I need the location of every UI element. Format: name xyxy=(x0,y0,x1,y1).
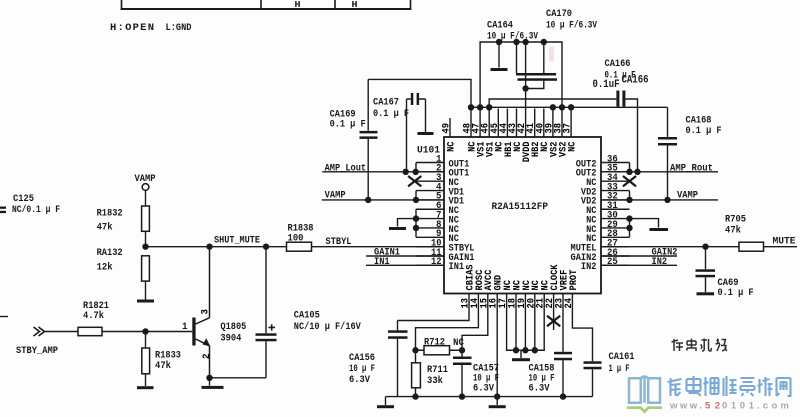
pin 37 name NC xyxy=(567,141,579,152)
label Q1805 type 3904 xyxy=(220,332,241,344)
label CA105 value xyxy=(294,321,362,333)
node bus junction x=489.2 xyxy=(486,104,492,110)
resistor R705 body xyxy=(739,242,764,251)
pin 20 name NC xyxy=(530,280,542,291)
wire pin33 to pin32 tie xyxy=(629,191,631,200)
resistor R711 body xyxy=(412,350,421,396)
svg-text:Q1805: Q1805 xyxy=(220,321,246,333)
label STBY_AMP xyxy=(16,345,58,357)
svg-text:H: H xyxy=(352,0,358,10)
pin 9 name NC xyxy=(449,233,460,245)
label NC (R712) xyxy=(453,337,465,349)
pin 23 name VREF xyxy=(558,270,570,291)
transistor Q1805 collector xyxy=(196,247,210,324)
pin 28 number xyxy=(607,229,618,240)
svg-text:CA170: CA170 xyxy=(546,8,572,20)
pin 42 (DVDD) stub xyxy=(525,89,527,138)
label VAMP terminal xyxy=(135,173,156,185)
wire net VAMP (left) xyxy=(322,199,444,201)
label R1832 value 47k xyxy=(97,222,113,234)
label CA164 value xyxy=(487,31,539,43)
pin 26 (GAIN2) stub xyxy=(601,255,630,257)
pink jpeg artifact xyxy=(549,47,554,61)
wire net IN2 from pin25 xyxy=(601,264,677,266)
pin 20 (NC) number xyxy=(526,298,537,309)
label R1821 xyxy=(83,300,109,312)
wire pin15 to CA157 xyxy=(462,294,488,351)
svg-text:R1832: R1832 xyxy=(97,208,123,220)
svg-text:47k: 47k xyxy=(97,222,113,234)
label net AMP_Lout xyxy=(325,162,367,174)
label CA158 value 10uF xyxy=(529,373,555,385)
label CA166 xyxy=(605,58,631,70)
pin 28 (NC) stub xyxy=(601,236,630,238)
wire net GAIN1 to pin11 xyxy=(366,255,444,257)
pin 29 name NC xyxy=(586,224,597,236)
pin 43 (NC) stub xyxy=(516,109,518,138)
svg-text:6.3V: 6.3V xyxy=(349,374,371,386)
pin 11 (GAIN1) stub xyxy=(416,255,444,257)
svg-text:CA161: CA161 xyxy=(609,351,635,363)
label CA166 duplicate xyxy=(622,75,649,87)
transistor Q1805 base bar xyxy=(192,318,195,346)
node R711 / rail junction xyxy=(412,393,418,399)
wire emitter to ground xyxy=(209,378,211,386)
svg-text:VAMP: VAMP xyxy=(135,173,156,185)
wire net SHUT_MUTE xyxy=(146,246,287,248)
svg-text:12k: 12k xyxy=(97,262,113,274)
svg-text:STBY_AMP: STBY_AMP xyxy=(16,345,58,357)
svg-text:10 μ F/6.3V: 10 μ F/6.3V xyxy=(546,20,598,32)
capacitor CA170 top stubs xyxy=(517,42,544,73)
pin 27 number xyxy=(607,239,618,250)
svg-text:STBYL: STBYL xyxy=(326,236,352,248)
ground bar (R1833) xyxy=(137,386,154,389)
node base junction xyxy=(142,328,148,334)
pin 25 (IN2) stub xyxy=(601,264,630,266)
capacitor CA156 bottom lead xyxy=(397,339,399,397)
node R712/R711 junction xyxy=(412,347,418,353)
watermark url www.520101.com xyxy=(669,401,789,412)
label R1821 value 4.7k xyxy=(83,310,104,322)
table cell text H (2) xyxy=(352,0,358,10)
wire bus to CA168 xyxy=(667,107,669,137)
label CA170 xyxy=(546,8,572,20)
pin 21 (NC) number xyxy=(536,298,547,309)
pin 18 name NC xyxy=(511,280,523,291)
pin 24 name PROT xyxy=(568,270,580,291)
label net MUTE xyxy=(773,236,796,248)
node bus junction x=552.9 xyxy=(550,104,556,110)
node bus junction x=480.1 xyxy=(477,104,483,110)
svg-text:12: 12 xyxy=(431,257,442,268)
svg-text:1 μ F: 1 μ F xyxy=(609,363,630,375)
label net VAMP (left) xyxy=(325,190,346,202)
pin 32 (VD2) stub xyxy=(601,199,630,201)
pin 45 number xyxy=(490,123,501,134)
pin 5 (VD1) stub xyxy=(416,199,444,201)
svg-text:25: 25 xyxy=(607,257,618,268)
wire top rail xyxy=(480,42,562,107)
svg-text:3: 3 xyxy=(200,309,211,315)
svg-text:CA105: CA105 xyxy=(294,309,320,321)
svg-text:PROT: PROT xyxy=(568,270,580,291)
wire RA132 to ground xyxy=(145,281,147,299)
node bus junction x=562 xyxy=(559,104,565,110)
watermark chinese site name xyxy=(668,376,791,396)
pin 26 name GAIN2 xyxy=(571,252,597,264)
label CA168 xyxy=(686,115,712,127)
capacitor CA166 plates xyxy=(616,91,625,107)
pin 11 name GAIN1 xyxy=(449,252,475,264)
capacitor CA161 bottom lead xyxy=(592,369,594,396)
node CA158 / rail junction xyxy=(560,393,566,399)
wire CA169/CA167 top line xyxy=(368,79,471,107)
pin 2 (OUT1) stub xyxy=(416,171,444,173)
wire pins6-9 to ground xyxy=(398,219,417,227)
wire STBY_AMP input xyxy=(45,331,79,333)
label CA105 xyxy=(294,309,320,321)
wire DVDD mid node xyxy=(525,42,527,89)
label net VAMP (right) xyxy=(677,190,698,202)
ground bar (RA132) xyxy=(137,300,154,303)
svg-text:AMP_Lout: AMP_Lout xyxy=(325,162,367,174)
svg-text:0.1 μ F: 0.1 μ F xyxy=(330,119,366,131)
label RA132 xyxy=(97,247,123,259)
svg-text:0.1 μ F: 0.1 μ F xyxy=(373,108,409,120)
wire net AMP_Lout xyxy=(322,171,444,173)
ground bar (CA167) xyxy=(418,132,434,135)
pin 11 number xyxy=(431,248,442,259)
pin 8 name NC xyxy=(449,224,460,236)
svg-text:VAMP: VAMP xyxy=(677,190,698,202)
wire CA166 to AMP_Rout xyxy=(625,99,637,172)
wire R705 to MUTE xyxy=(764,246,798,248)
label net IN2 xyxy=(652,256,668,268)
capacitor CA157 plates xyxy=(453,357,472,366)
pin 1 number xyxy=(436,154,442,165)
svg-text:CA166: CA166 xyxy=(622,75,649,87)
terminal VAMP circle xyxy=(142,184,149,191)
pin 7 (NC) stub xyxy=(416,218,444,220)
pin 10 name STBYL xyxy=(449,243,475,255)
ground bar (rail left end) xyxy=(377,397,394,409)
pin 44 (HB1) stub xyxy=(506,109,508,138)
pin 39 name VS2 xyxy=(548,142,560,158)
pin 41 name HB2 xyxy=(530,142,542,158)
node bus junction x=571.1 xyxy=(568,104,574,110)
svg-text:IN1: IN1 xyxy=(374,256,390,268)
svg-text:H: H xyxy=(295,0,301,10)
wire R1833 to ground xyxy=(145,374,147,386)
pin 34 name NC xyxy=(586,177,597,189)
label R1833 value 47k xyxy=(155,360,171,372)
wire mid node to CA170 bottom plate xyxy=(526,81,544,89)
label CA157 value 10uF xyxy=(473,373,499,385)
pin 35 name OUT2 xyxy=(576,168,597,180)
pin 8 (NC) stub xyxy=(416,227,444,229)
node pin18 tie junction xyxy=(513,347,519,353)
ground bar (Q1805) xyxy=(202,386,224,389)
svg-text:24: 24 xyxy=(564,298,575,309)
svg-text:NC/0.1 μ F: NC/0.1 μ F xyxy=(12,204,60,216)
pin 39 (VS2) stub xyxy=(552,107,554,137)
capacitor CA158 plates xyxy=(554,352,572,361)
wire pins 30-28 tie xyxy=(629,219,631,238)
svg-text:IN2: IN2 xyxy=(652,256,668,268)
pin 35 (OUT2) stub xyxy=(601,171,630,173)
label CA170 value xyxy=(546,20,598,32)
transistor Q1805 emitter with arrow xyxy=(196,338,211,378)
pin 9 number xyxy=(436,229,442,240)
node rail junction x=543.8 xyxy=(541,39,547,45)
svg-text:IN2: IN2 xyxy=(581,261,597,273)
pin 29 number xyxy=(607,220,618,231)
pin 31 name NC xyxy=(586,205,597,217)
wire pin1 to pin2 tie xyxy=(415,163,417,172)
label RA132 value 12k xyxy=(97,262,113,274)
label CA161 value 1uF xyxy=(609,363,630,375)
svg-text:6.3V: 6.3V xyxy=(473,383,495,395)
capacitor CA156 plates xyxy=(388,330,408,339)
pin 14 name ROSC xyxy=(474,269,486,290)
node MUTEL / CA69 junction xyxy=(702,243,708,249)
label CA156 voltage 6.3V xyxy=(349,374,371,386)
capacitor CA69 plates xyxy=(696,269,716,277)
pin 25 name IN2 xyxy=(581,261,597,273)
wire net AMP_Rout xyxy=(601,171,718,173)
pin 15 name AVCC xyxy=(483,269,495,290)
label CA157 voltage 6.3V xyxy=(473,383,495,395)
pin 30 number xyxy=(607,210,618,221)
label net GAIN2 xyxy=(652,247,678,259)
pin 27 (MUTEL) stub xyxy=(601,246,630,248)
pin 41 (HB2) stub xyxy=(534,109,536,138)
svg-text:AMP_Rout: AMP_Rout xyxy=(670,162,713,174)
label net STBYL xyxy=(326,236,352,248)
svg-text:0.1uF: 0.1uF xyxy=(593,79,620,91)
node rail junction x=499 xyxy=(496,39,502,45)
input arrow STBY_AMP xyxy=(34,327,45,336)
node rail junction x=525.6 xyxy=(522,39,528,45)
pin 6 (NC) stub xyxy=(416,208,444,210)
caption glyph 2 xyxy=(687,339,696,352)
label Q1805 xyxy=(220,321,246,333)
pin 46 number xyxy=(481,123,492,134)
pin 2 name OUT1 xyxy=(449,168,470,180)
label CA168 value xyxy=(686,125,722,137)
pin 33 name VD2 xyxy=(581,186,597,198)
pin 38 (VS2) stub xyxy=(561,107,563,137)
capacitor CA69 leads xyxy=(705,247,707,293)
svg-text:1: 1 xyxy=(182,322,188,333)
wire net GAIN2 from pin26 xyxy=(601,255,677,257)
capacitor C125 plates (cut at edge) xyxy=(0,207,6,214)
label R712 xyxy=(424,337,445,349)
svg-text:H:OPEN: H:OPEN xyxy=(110,22,154,34)
label net SHUT_MUTE xyxy=(214,234,260,246)
pin 46 name VS1 xyxy=(485,142,497,158)
pin 38 number xyxy=(554,123,565,134)
pin 41 number xyxy=(526,123,537,134)
pin 49 number xyxy=(442,123,453,134)
stray dash at left edge xyxy=(0,316,8,318)
pin 5 name VD1 xyxy=(449,196,465,208)
wire R1821 to base xyxy=(102,331,192,333)
pin 46 (VS1) stub xyxy=(488,107,490,137)
label U101 xyxy=(417,145,440,157)
svg-text:10 μ F/6.3V: 10 μ F/6.3V xyxy=(487,31,539,43)
pin 3 (NC) stub xyxy=(416,180,444,182)
pin 7 name NC xyxy=(449,214,460,226)
node AMP_Lout / CA167 junction xyxy=(403,169,409,175)
pin 47 (VS1) stub xyxy=(479,107,481,137)
capacitor CA168 plates xyxy=(658,137,677,146)
wire net STBYL to pin10 xyxy=(312,246,445,248)
node VAMP / CA169 junction xyxy=(365,197,371,203)
caption glyph 4 xyxy=(716,339,728,352)
capacitor CA105 plates xyxy=(256,333,277,341)
label R1838 xyxy=(288,223,314,235)
svg-text:6.3V: 6.3V xyxy=(529,383,551,395)
wire CA168 to VAMP xyxy=(667,146,669,200)
pin 34 number xyxy=(607,173,618,184)
svg-text:NC/10 μ F/16V: NC/10 μ F/16V xyxy=(294,321,362,333)
pin 5 number xyxy=(436,192,442,203)
pin 28 name NC xyxy=(586,233,597,245)
label CA69 xyxy=(718,277,739,289)
svg-text:MUTE: MUTE xyxy=(773,236,796,248)
label C125 value xyxy=(12,204,60,216)
capacitor CA164 lead xyxy=(498,42,500,68)
pin 12 number xyxy=(431,257,442,268)
label CA69 value 0.1uF xyxy=(718,287,754,299)
node SHUT_MUTE / R1832 junction xyxy=(142,243,148,249)
pin 37 (NC) stub xyxy=(570,107,572,137)
pin 4 (VD1) stub xyxy=(416,190,444,192)
label CA157 xyxy=(473,363,499,375)
resistor R1832 body xyxy=(142,206,150,231)
ground bar (pins 30-28) xyxy=(650,228,669,231)
wire emitter to CA105 xyxy=(210,377,267,379)
wire pins 6-9 tie xyxy=(415,209,417,237)
node pin20 tie junction xyxy=(532,347,538,353)
node pin7 tie junction xyxy=(413,215,419,221)
label C125 xyxy=(13,193,34,205)
pin 22 (CLOCK) number xyxy=(545,298,556,309)
no-connect X on pin 34 xyxy=(623,176,636,186)
pin 48 number xyxy=(463,123,474,134)
pin 15 (AVCC) number xyxy=(479,298,490,309)
wire bottom ground rail xyxy=(386,396,593,398)
truth table (cut off at top) xyxy=(121,0,412,9)
op-amp/audio-IC U101 R2A15112FP body xyxy=(444,137,601,294)
svg-text:CA166: CA166 xyxy=(605,58,631,70)
capacitor CA164 plate/ground bar xyxy=(491,68,508,71)
label R1838 value 100 xyxy=(288,233,304,245)
pin 1 (OUT1) stub xyxy=(416,162,444,164)
label CA156 xyxy=(349,352,375,364)
capacitor CA158 bottom lead xyxy=(562,360,564,396)
resistor RA132 body xyxy=(142,256,150,281)
node pin35/AMP_Rout junction xyxy=(626,169,632,175)
pin 23 (VREF) number xyxy=(555,298,566,309)
capacitor CA167 plates xyxy=(411,93,419,105)
pin 22 name CLOCK xyxy=(549,264,561,291)
pin 17 (NC) number xyxy=(498,298,509,308)
label CA166 value duplicate xyxy=(593,79,620,91)
node pin29 tie junction xyxy=(626,225,632,231)
pin 19 name NC xyxy=(521,280,533,291)
pin 39 number xyxy=(544,123,555,134)
resistor R1833 body xyxy=(142,348,150,374)
label CA167 value xyxy=(373,108,409,120)
node pin19 tie junction xyxy=(522,347,528,353)
label net IN1 xyxy=(374,256,390,268)
svg-text:R2A15112FP: R2A15112FP xyxy=(492,201,549,213)
pin 43 number xyxy=(508,123,519,134)
wire net IN1 to pin12 xyxy=(366,264,444,266)
node VAMP / CA168 junction xyxy=(664,197,670,203)
pin 45 (NC) stub xyxy=(497,109,499,138)
pin 6 number xyxy=(436,201,442,212)
node pin30 tie junction xyxy=(626,215,632,221)
pin 47 number xyxy=(472,123,483,134)
svg-text:SHUT_MUTE: SHUT_MUTE xyxy=(214,234,260,246)
svg-text:4.7k: 4.7k xyxy=(83,310,104,322)
pin 17 name NC xyxy=(502,280,514,291)
label CA158 xyxy=(529,363,555,375)
label CA158 voltage 6.3V xyxy=(529,383,551,395)
pin 36 name OUT2 xyxy=(576,158,597,170)
node GND / rail junction xyxy=(494,393,500,399)
svg-text:NC: NC xyxy=(567,141,579,152)
pin 48 (NC) stub xyxy=(470,107,472,137)
wire pin16 GND drop xyxy=(496,294,498,397)
capacitor CA169 plates xyxy=(360,131,378,139)
ground bar (pins 6-9) xyxy=(389,227,406,230)
pin 42 name DVDD xyxy=(521,142,533,163)
pin 10 number xyxy=(431,239,442,250)
pin 32 number xyxy=(607,192,618,203)
node pin5/VAMP junction xyxy=(413,197,419,203)
label CA169 xyxy=(330,109,356,121)
node emitter junction xyxy=(206,375,212,381)
svg-text:NC: NC xyxy=(445,141,457,152)
pin 40 (NC) stub xyxy=(543,109,545,138)
pin 18 (NC) number xyxy=(508,298,519,309)
pin 3 name NC xyxy=(449,177,460,189)
label pin 3 (collector) xyxy=(200,309,211,315)
pin 25 number xyxy=(607,257,618,268)
pin 33 number xyxy=(607,182,618,193)
pin 19 (NC) number xyxy=(517,298,528,309)
label R2A15112FP xyxy=(492,201,549,213)
svg-text:2: 2 xyxy=(202,354,213,360)
pin 34 (NC) stub xyxy=(601,180,630,182)
label R705 value 47k xyxy=(725,225,741,237)
pin 49 name NC xyxy=(445,141,457,152)
capacitor CA169 leads xyxy=(367,79,369,199)
wire pin4 to pin5 tie xyxy=(415,191,417,200)
label R1832 xyxy=(97,208,123,220)
pin 4 name VD1 xyxy=(449,186,465,198)
watermark book icon xyxy=(627,377,662,412)
pin 4 number xyxy=(436,182,442,193)
svg-text:100: 100 xyxy=(288,233,304,245)
svg-text:0.1 μ F: 0.1 μ F xyxy=(686,125,722,137)
ground bar (pins 17-21) xyxy=(512,350,530,361)
